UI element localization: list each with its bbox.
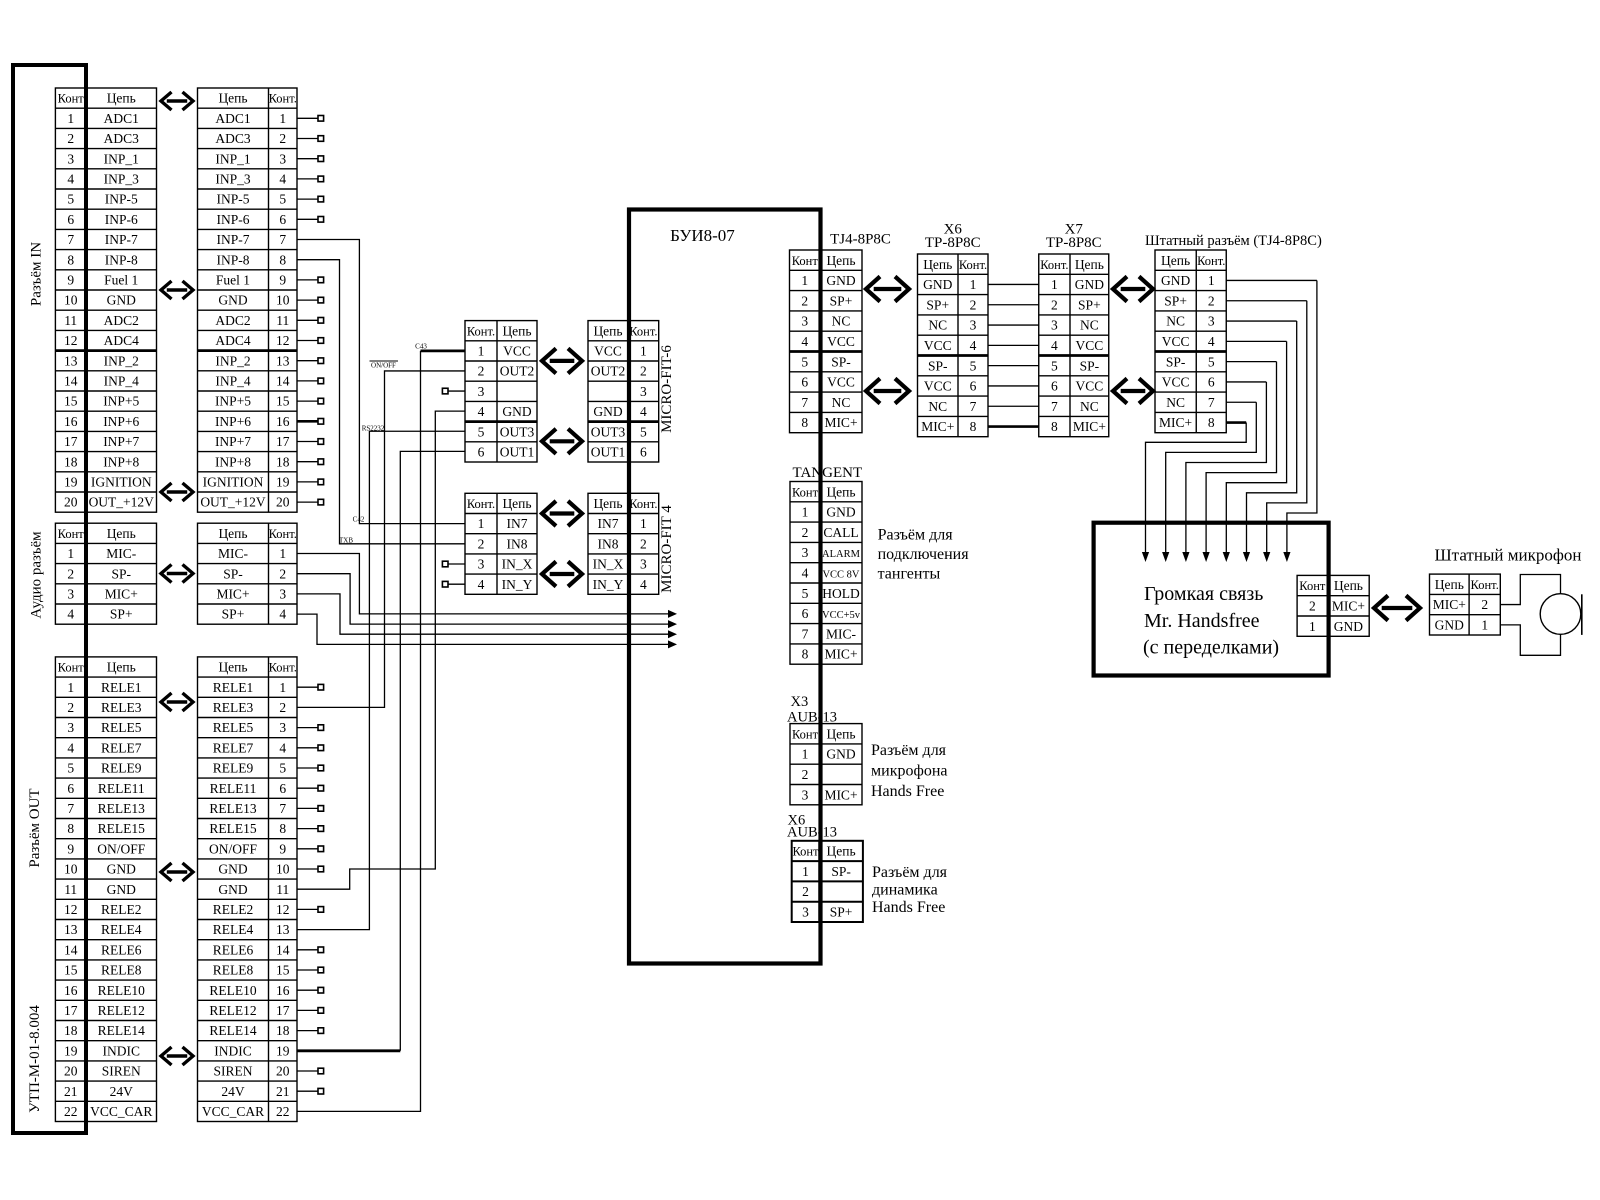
svg-text:X3: X3 (791, 694, 809, 710)
svg-text:5: 5 (640, 424, 647, 439)
svg-text:3: 3 (1051, 318, 1058, 333)
svg-text:RELE4: RELE4 (101, 922, 142, 937)
svg-text:14: 14 (64, 942, 78, 957)
svg-text:SP-: SP- (111, 566, 131, 581)
svg-text:3: 3 (802, 545, 809, 560)
svg-text:INP_3: INP_3 (104, 172, 140, 187)
svg-text:ADC2: ADC2 (104, 313, 139, 328)
svg-text:24V: 24V (110, 1084, 134, 1099)
svg-text:SP+: SP+ (110, 607, 133, 622)
svg-text:12: 12 (276, 902, 290, 917)
svg-text:IN8: IN8 (598, 536, 619, 551)
svg-text:1: 1 (67, 680, 74, 695)
svg-text:1: 1 (640, 516, 647, 531)
svg-text:ADC4: ADC4 (104, 333, 140, 348)
svg-text:Hands Free: Hands Free (872, 899, 945, 916)
svg-text:IN7: IN7 (598, 516, 619, 531)
svg-text:TJ4-8P8C: TJ4-8P8C (830, 232, 891, 248)
svg-text:GND: GND (1435, 617, 1464, 632)
svg-text:RELE12: RELE12 (98, 1003, 145, 1018)
svg-text:MICRO-FIT-6: MICRO-FIT-6 (659, 345, 675, 433)
svg-text:Разъём IN: Разъём IN (29, 242, 45, 306)
svg-text:12: 12 (276, 333, 290, 348)
svg-text:5: 5 (802, 586, 809, 601)
svg-text:SP-: SP- (928, 358, 948, 373)
svg-text:IN_X: IN_X (593, 557, 624, 572)
svg-text:16: 16 (276, 414, 290, 429)
svg-text:2: 2 (478, 536, 485, 551)
svg-text:Конт.: Конт. (629, 497, 657, 511)
svg-text:INDIC: INDIC (214, 1043, 252, 1058)
svg-text:Цепь: Цепь (1075, 257, 1104, 272)
svg-text:2: 2 (802, 884, 809, 899)
svg-text:INP-7: INP-7 (105, 232, 138, 247)
svg-text:(с переделками): (с переделками) (1143, 637, 1279, 659)
svg-text:1: 1 (802, 747, 809, 762)
svg-text:2: 2 (802, 767, 809, 782)
svg-text:MIC+: MIC+ (824, 647, 857, 662)
svg-text:2: 2 (640, 536, 647, 551)
svg-text:Конт: Конт (792, 727, 819, 741)
svg-text:С42: С42 (353, 516, 365, 524)
svg-text:1: 1 (478, 516, 485, 531)
svg-text:10: 10 (276, 862, 290, 877)
svg-text:2: 2 (279, 700, 286, 715)
svg-text:Конт: Конт (792, 254, 819, 268)
svg-text:NC: NC (832, 314, 851, 329)
svg-text:2: 2 (802, 525, 809, 540)
svg-text:4: 4 (279, 172, 286, 187)
svg-text:GND: GND (107, 862, 136, 877)
svg-text:ADC4: ADC4 (215, 333, 251, 348)
svg-text:MIC+: MIC+ (824, 415, 857, 430)
svg-text:IGNITION: IGNITION (91, 475, 152, 490)
svg-text:1: 1 (279, 546, 286, 561)
svg-text:Цепь: Цепь (107, 91, 136, 106)
svg-text:Конт.: Конт. (269, 661, 297, 675)
svg-text:11: 11 (64, 882, 77, 897)
svg-text:20: 20 (64, 495, 78, 510)
svg-text:IN7: IN7 (507, 516, 528, 531)
svg-text:INP-5: INP-5 (217, 192, 250, 207)
svg-text:GND: GND (1334, 619, 1363, 634)
svg-text:4: 4 (640, 404, 647, 419)
svg-text:VCC: VCC (924, 379, 952, 394)
svg-text:ON/OFF: ON/OFF (209, 841, 258, 856)
svg-text:12: 12 (64, 902, 78, 917)
svg-text:4: 4 (67, 740, 74, 755)
svg-text:ТХВ: ТХВ (339, 537, 353, 545)
svg-text:OUT3: OUT3 (500, 424, 535, 439)
svg-text:INP-6: INP-6 (105, 212, 138, 227)
svg-text:INP+7: INP+7 (215, 434, 251, 449)
svg-text:OUT1: OUT1 (591, 445, 626, 460)
svg-text:GND: GND (826, 505, 855, 520)
svg-text:GND: GND (826, 747, 855, 762)
svg-text:6: 6 (970, 379, 977, 394)
svg-text:VCC: VCC (827, 375, 855, 390)
svg-text:Цепь: Цепь (827, 844, 856, 859)
svg-text:17: 17 (64, 1003, 78, 1018)
svg-text:NC: NC (832, 395, 851, 410)
svg-text:RELE7: RELE7 (101, 740, 142, 755)
svg-text:10: 10 (64, 862, 78, 877)
svg-text:8: 8 (802, 647, 809, 662)
svg-text:1: 1 (1481, 617, 1488, 632)
svg-text:INP+8: INP+8 (103, 454, 139, 469)
svg-text:6: 6 (67, 781, 74, 796)
svg-text:Цепь: Цепь (826, 726, 855, 741)
svg-text:9: 9 (279, 273, 286, 288)
svg-text:5: 5 (970, 358, 977, 373)
svg-text:4: 4 (640, 577, 647, 592)
svg-text:7: 7 (67, 801, 74, 816)
svg-text:Цепь: Цепь (1334, 578, 1363, 593)
svg-text:21: 21 (64, 1084, 78, 1099)
svg-text:INP_4: INP_4 (104, 374, 140, 389)
svg-text:GND: GND (218, 862, 247, 877)
svg-text:INP-6: INP-6 (217, 212, 250, 227)
svg-text:Конт.: Конт. (269, 527, 297, 541)
svg-text:OUT2: OUT2 (591, 364, 626, 379)
svg-text:GND: GND (502, 404, 531, 419)
svg-text:SP-: SP- (1166, 354, 1186, 369)
svg-text:RELE3: RELE3 (213, 700, 254, 715)
svg-text:7: 7 (67, 232, 74, 247)
svg-text:2: 2 (801, 293, 808, 308)
svg-text:INP-5: INP-5 (105, 192, 138, 207)
svg-text:6: 6 (801, 375, 808, 390)
svg-text:MIC-: MIC- (826, 626, 857, 641)
svg-text:4: 4 (970, 338, 977, 353)
svg-text:11: 11 (64, 313, 77, 328)
svg-text:Цепь: Цепь (593, 323, 622, 338)
svg-text:GND: GND (1075, 277, 1104, 292)
svg-text:RELE5: RELE5 (213, 720, 254, 735)
svg-text:IN_Y: IN_Y (502, 577, 533, 592)
svg-text:RELE2: RELE2 (101, 902, 142, 917)
svg-text:GND: GND (826, 273, 855, 288)
svg-text:RS2232: RS2232 (362, 425, 385, 433)
svg-text:18: 18 (64, 1023, 78, 1038)
svg-text:Конт.: Конт. (467, 497, 495, 511)
svg-text:MIC+: MIC+ (1073, 419, 1106, 434)
svg-text:Цепь: Цепь (218, 91, 247, 106)
svg-text:SP+: SP+ (1078, 297, 1101, 312)
svg-text:5: 5 (67, 761, 74, 776)
svg-text:3: 3 (478, 384, 485, 399)
svg-text:4: 4 (478, 577, 485, 592)
svg-text:GND: GND (218, 293, 247, 308)
svg-text:MIC+: MIC+ (216, 587, 249, 602)
svg-text:тангенты: тангенты (878, 566, 941, 583)
svg-text:MIC+: MIC+ (824, 787, 857, 802)
svg-text:GND: GND (923, 277, 952, 292)
svg-text:Hands Free: Hands Free (871, 783, 944, 800)
svg-text:NC: NC (1080, 399, 1099, 414)
svg-text:19: 19 (64, 475, 78, 490)
svg-text:VCC: VCC (1162, 334, 1190, 349)
svg-text:SP-: SP- (831, 864, 851, 879)
svg-text:4: 4 (67, 172, 74, 187)
svg-text:1: 1 (802, 505, 809, 520)
svg-text:INP_2: INP_2 (104, 353, 139, 368)
svg-text:OUT3: OUT3 (591, 424, 626, 439)
svg-text:Цепь: Цепь (826, 484, 855, 499)
svg-text:С43: С43 (415, 343, 427, 351)
svg-text:RELE1: RELE1 (101, 680, 142, 695)
svg-text:RELE4: RELE4 (213, 922, 254, 937)
svg-text:MIC-: MIC- (218, 546, 249, 561)
svg-text:VCC: VCC (827, 334, 855, 349)
svg-text:10: 10 (64, 293, 78, 308)
svg-text:17: 17 (64, 434, 78, 449)
svg-text:4: 4 (279, 740, 286, 755)
svg-text:RELE6: RELE6 (101, 942, 142, 957)
svg-text:Конт: Конт (792, 485, 819, 499)
svg-text:6: 6 (1208, 375, 1215, 390)
svg-text:INP+5: INP+5 (103, 394, 139, 409)
svg-text:Цепь: Цепь (107, 526, 136, 541)
svg-text:RELE14: RELE14 (98, 1023, 145, 1038)
svg-text:4: 4 (67, 607, 74, 622)
svg-text:3: 3 (279, 587, 286, 602)
svg-text:Конт: Конт (1299, 579, 1326, 593)
svg-text:RELE1: RELE1 (213, 680, 254, 695)
svg-text:19: 19 (276, 475, 290, 490)
svg-text:TP-8P8C: TP-8P8C (1046, 235, 1102, 251)
svg-text:3: 3 (478, 557, 485, 572)
svg-text:7: 7 (1051, 399, 1058, 414)
svg-text:динамика: динамика (872, 882, 938, 899)
svg-text:SP+: SP+ (1164, 293, 1187, 308)
svg-text:9: 9 (67, 273, 74, 288)
svg-text:GND: GND (107, 293, 136, 308)
svg-text:TP-8P8C: TP-8P8C (925, 235, 981, 251)
svg-text:15: 15 (64, 394, 78, 409)
svg-text:RELE9: RELE9 (101, 761, 142, 776)
svg-text:3: 3 (801, 314, 808, 329)
svg-text:3: 3 (640, 384, 647, 399)
svg-text:Fuel 1: Fuel 1 (216, 273, 250, 288)
svg-text:Цепь: Цепь (218, 660, 247, 675)
svg-text:7: 7 (279, 232, 286, 247)
svg-text:5: 5 (478, 424, 485, 439)
svg-text:NC: NC (1166, 314, 1185, 329)
svg-text:Конт.: Конт. (467, 324, 495, 338)
svg-text:5: 5 (279, 761, 286, 776)
svg-text:RELE15: RELE15 (209, 821, 256, 836)
svg-text:RELE13: RELE13 (98, 801, 145, 816)
svg-text:NC: NC (928, 399, 947, 414)
svg-text:GND: GND (218, 882, 247, 897)
svg-text:17: 17 (276, 1003, 290, 1018)
svg-text:MIC+: MIC+ (921, 419, 954, 434)
svg-text:22: 22 (276, 1104, 290, 1119)
svg-text:8: 8 (970, 419, 977, 434)
svg-text:Конт.: Конт. (1040, 258, 1068, 272)
svg-text:SP+: SP+ (222, 607, 245, 622)
svg-text:Разъём OUT: Разъём OUT (27, 788, 43, 867)
svg-text:NC: NC (1080, 318, 1099, 333)
svg-text:VCC: VCC (1075, 379, 1103, 394)
svg-text:1: 1 (1051, 277, 1058, 292)
svg-text:3: 3 (67, 151, 74, 166)
svg-text:18: 18 (64, 454, 78, 469)
svg-text:1: 1 (279, 680, 286, 695)
svg-text:INP_4: INP_4 (215, 374, 251, 389)
svg-text:13: 13 (64, 353, 78, 368)
svg-text:9: 9 (279, 841, 286, 856)
svg-text:6: 6 (279, 781, 286, 796)
svg-text:OUT_+12V: OUT_+12V (89, 495, 155, 510)
svg-text:20: 20 (276, 495, 290, 510)
svg-text:IN_X: IN_X (502, 557, 533, 572)
svg-text:4: 4 (801, 334, 808, 349)
svg-text:20: 20 (64, 1064, 78, 1079)
svg-text:20: 20 (276, 1064, 290, 1079)
svg-text:2: 2 (279, 131, 286, 146)
svg-text:7: 7 (801, 395, 808, 410)
svg-text:Цепь: Цепь (218, 526, 247, 541)
svg-text:Цепь: Цепь (826, 253, 855, 268)
svg-text:HOLD: HOLD (822, 586, 860, 601)
svg-text:22: 22 (64, 1104, 78, 1119)
svg-text:17: 17 (276, 434, 290, 449)
svg-text:5: 5 (1051, 358, 1058, 373)
svg-text:10: 10 (276, 293, 290, 308)
svg-text:1: 1 (279, 111, 286, 126)
svg-text:УТП-М-01-8.004: УТП-М-01-8.004 (27, 1005, 43, 1113)
svg-text:INP-7: INP-7 (217, 232, 250, 247)
svg-text:VCC: VCC (1162, 375, 1190, 390)
svg-text:4: 4 (1208, 334, 1215, 349)
svg-text:16: 16 (64, 414, 78, 429)
svg-text:Конт: Конт (58, 527, 85, 541)
svg-text:8: 8 (1208, 415, 1215, 430)
svg-text:1: 1 (1208, 273, 1215, 288)
svg-text:БУИ8-07: БУИ8-07 (670, 226, 735, 245)
svg-text:11: 11 (276, 882, 289, 897)
svg-text:12: 12 (64, 333, 78, 348)
svg-text:3: 3 (802, 904, 809, 919)
svg-text:1: 1 (801, 273, 808, 288)
svg-text:2: 2 (67, 131, 74, 146)
svg-text:3: 3 (279, 720, 286, 735)
svg-text:2: 2 (1208, 293, 1215, 308)
svg-text:1: 1 (970, 277, 977, 292)
svg-text:Цепь: Цепь (593, 496, 622, 511)
svg-text:13: 13 (276, 922, 290, 937)
svg-text:Mr. Handsfree: Mr. Handsfree (1144, 610, 1260, 632)
svg-text:Цепь: Цепь (923, 257, 952, 272)
svg-text:3: 3 (970, 318, 977, 333)
svg-text:Цепь: Цепь (1161, 253, 1190, 268)
svg-text:Конт: Конт (58, 661, 85, 675)
svg-text:CALL: CALL (823, 525, 858, 540)
svg-text:14: 14 (276, 942, 290, 957)
svg-text:INP_2: INP_2 (215, 353, 250, 368)
svg-text:Конт.: Конт. (269, 92, 297, 106)
svg-text:8: 8 (801, 415, 808, 430)
svg-text:INP+8: INP+8 (215, 454, 251, 469)
svg-text:Разъём для: Разъём для (871, 742, 947, 759)
svg-text:TANGENT: TANGENT (793, 465, 863, 481)
svg-text:7: 7 (802, 626, 809, 641)
svg-text:GND: GND (107, 882, 136, 897)
svg-text:MIC+: MIC+ (1159, 415, 1192, 430)
svg-text:ADC3: ADC3 (104, 131, 140, 146)
svg-text:6: 6 (67, 212, 74, 227)
svg-text:19: 19 (276, 1043, 290, 1058)
svg-text:1: 1 (478, 344, 485, 359)
svg-text:ADC1: ADC1 (104, 111, 139, 126)
svg-text:ALARM: ALARM (822, 549, 861, 560)
svg-text:16: 16 (64, 983, 78, 998)
svg-text:ADC2: ADC2 (215, 313, 250, 328)
svg-text:IGNITION: IGNITION (203, 475, 264, 490)
svg-text:MIC+: MIC+ (1332, 598, 1365, 613)
svg-text:15: 15 (276, 394, 290, 409)
svg-text:2: 2 (640, 364, 647, 379)
svg-text:4: 4 (1051, 338, 1058, 353)
svg-text:8: 8 (1051, 419, 1058, 434)
svg-text:Штатный микрофон: Штатный микрофон (1435, 546, 1582, 565)
svg-text:5: 5 (67, 192, 74, 207)
svg-text:OUT_+12V: OUT_+12V (200, 495, 266, 510)
svg-text:INP-8: INP-8 (217, 252, 250, 267)
svg-text:Цепь: Цепь (502, 323, 531, 338)
svg-text:3: 3 (802, 787, 809, 802)
svg-text:VCC_CAR: VCC_CAR (202, 1104, 264, 1119)
svg-text:18: 18 (276, 1023, 290, 1038)
svg-text:14: 14 (276, 374, 290, 389)
svg-text:8: 8 (67, 821, 74, 836)
svg-text:микрофона: микрофона (871, 763, 948, 780)
svg-text:RELE12: RELE12 (209, 1003, 256, 1018)
svg-text:ADC3: ADC3 (215, 131, 251, 146)
svg-text:GND: GND (593, 404, 622, 419)
svg-text:INP+5: INP+5 (215, 394, 251, 409)
svg-text:RELE10: RELE10 (98, 983, 145, 998)
svg-text:Штатный разъём (TJ4-8P8C): Штатный разъём (TJ4-8P8C) (1145, 233, 1322, 249)
svg-text:GND: GND (1161, 273, 1190, 288)
svg-text:NC: NC (928, 318, 947, 333)
svg-text:INP+7: INP+7 (103, 434, 139, 449)
svg-text:8: 8 (67, 252, 74, 267)
svg-text:Конт.: Конт. (1471, 578, 1499, 592)
svg-text:IN8: IN8 (507, 536, 528, 551)
svg-text:21: 21 (276, 1084, 290, 1099)
svg-text:1: 1 (802, 864, 809, 879)
svg-text:14: 14 (64, 374, 78, 389)
svg-text:Громкая связь: Громкая связь (1144, 583, 1263, 605)
svg-text:Цепь: Цепь (107, 660, 136, 675)
svg-text:1: 1 (1309, 619, 1316, 634)
svg-text:13: 13 (276, 353, 290, 368)
svg-text:SP-: SP- (831, 354, 851, 369)
svg-text:RELE6: RELE6 (213, 942, 254, 957)
svg-text:5: 5 (801, 354, 808, 369)
svg-text:19: 19 (64, 1043, 78, 1058)
svg-text:3: 3 (67, 720, 74, 735)
svg-text:4: 4 (279, 607, 286, 622)
svg-text:RELE11: RELE11 (210, 781, 257, 796)
svg-text:8: 8 (279, 252, 286, 267)
svg-text:4: 4 (802, 565, 809, 580)
svg-text:RELE8: RELE8 (101, 963, 142, 978)
svg-text:2: 2 (970, 297, 977, 312)
